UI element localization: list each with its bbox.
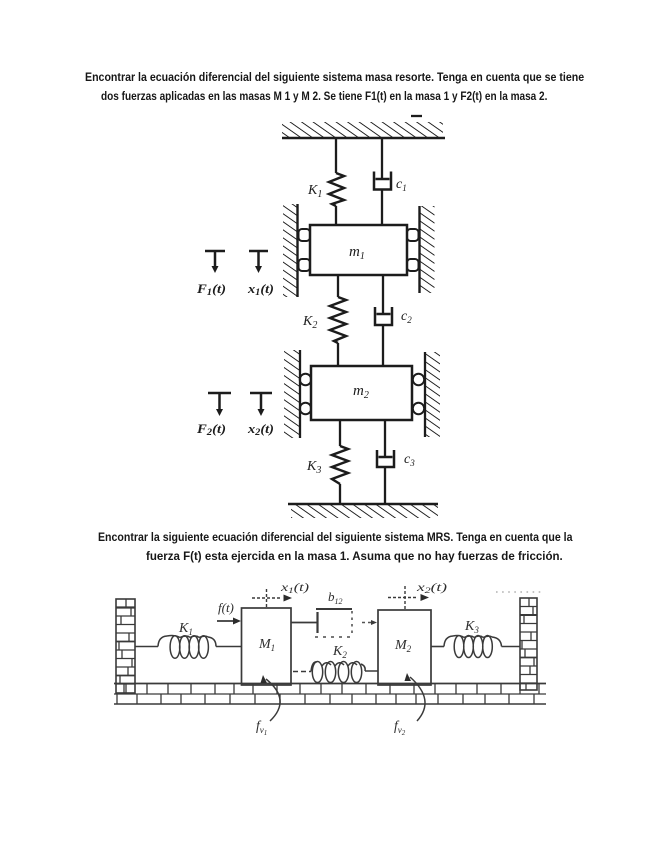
roller m2 lower-left: [300, 403, 311, 414]
ground (brick floor): [114, 684, 546, 705]
wire: damper c2 to mass m2: [382, 325, 384, 367]
svg-text:c1: c1: [396, 177, 407, 193]
svg-text:F2(t): F2(t): [196, 422, 226, 437]
wire: spring K3 to wall: [431, 646, 444, 648]
damper c3: [377, 450, 415, 468]
damper b12: [291, 589, 377, 637]
wall right lower (hatched): [425, 352, 440, 437]
wire: spring K3 to floor: [339, 484, 341, 504]
roller m1 upper-left: [299, 229, 311, 241]
spring K3: [306, 446, 348, 484]
wire: spring K1 to mass M1: [216, 646, 242, 648]
wire: ceiling to damper c1: [381, 138, 383, 179]
wall left lower (hatched): [284, 350, 300, 438]
floor (fixed support, hatched): [288, 504, 438, 518]
svg-text:K1: K1: [178, 621, 193, 637]
wire: ceiling to spring K1: [335, 138, 337, 173]
displacement x2(t) indicator: [388, 582, 447, 611]
friction label fv2 with arrow: [394, 673, 425, 737]
ceiling (fixed support, hatched): [282, 122, 445, 138]
svg-text:M2: M2: [394, 638, 412, 654]
wire: mass m2 to spring K3: [339, 420, 341, 446]
wire: spring K1 to mass m1: [335, 206, 337, 226]
roller m2 upper-right: [413, 374, 424, 385]
svg-text:M1: M1: [258, 637, 275, 653]
arrow x2(t): [247, 393, 274, 437]
paragraph 2 line 1: [98, 528, 573, 547]
arrow F2(t): [196, 393, 231, 437]
svg-text:K2: K2: [302, 314, 317, 331]
damper c2: [375, 307, 412, 325]
svg-text:x1(t): x1(t): [247, 282, 274, 297]
svg-text:K3: K3: [306, 459, 321, 476]
svg-text:K2: K2: [332, 644, 347, 660]
svg-text:b12: b12: [328, 589, 343, 606]
friction label fv1 with arrow: [256, 675, 280, 737]
roller m1 upper-right: [407, 229, 419, 241]
arrow x1(t): [247, 251, 274, 297]
svg-text:fv2: fv2: [394, 718, 406, 737]
wire: damper c3 to floor: [384, 467, 386, 504]
svg-text:K3: K3: [464, 619, 479, 635]
arrow F1(t): [196, 251, 226, 297]
svg-text:c3: c3: [404, 452, 415, 468]
spring K2: [302, 297, 346, 343]
stray dotted scan mark: [496, 591, 542, 593]
mass M1: [242, 608, 292, 685]
arrow f(t) applied force: [217, 600, 241, 625]
spring K2: [311, 644, 378, 683]
paragraph 1 line 1: [85, 68, 584, 87]
svg-text:F1(t): F1(t): [196, 282, 226, 297]
roller m2 upper-left: [300, 374, 311, 385]
wall left upper (hatched): [283, 204, 298, 297]
spring K1: [307, 173, 344, 206]
mass m1: [310, 225, 407, 275]
stray scan mark: [411, 115, 422, 117]
spring K1: [158, 621, 216, 658]
wire: mass m1 to damper c2: [382, 275, 384, 314]
svg-text:x2(t): x2(t): [415, 582, 447, 595]
wire: mass M1 to spring K2: [293, 671, 311, 673]
paragraph 1 line 2: [101, 87, 547, 106]
mass m2: [311, 366, 412, 420]
wall right upper (hatched): [420, 206, 435, 293]
mass M2: [378, 610, 431, 685]
spring K3: [444, 619, 502, 658]
svg-text:fv1: fv1: [256, 718, 267, 737]
svg-text:K1: K1: [307, 183, 322, 200]
roller m2 lower-right: [413, 403, 424, 414]
wall column left (bricks): [116, 599, 135, 693]
svg-text:x1(t): x1(t): [280, 582, 310, 595]
svg-text:f(t): f(t): [218, 600, 234, 615]
roller m1 lower-left: [299, 259, 311, 271]
svg-text:x2(t): x2(t): [247, 422, 274, 437]
wall column right (bricks): [520, 598, 537, 690]
wire: spring K2 to mass m2: [337, 343, 339, 367]
paragraph 2 line 2: [146, 547, 563, 566]
svg-text:c2: c2: [401, 309, 412, 325]
wire: mass m2 to damper c3: [384, 420, 386, 457]
roller m1 lower-right: [407, 259, 419, 271]
damper c1: [374, 172, 407, 194]
displacement x1(t) indicator: [252, 582, 309, 608]
wire: wall to spring K1: [135, 646, 158, 648]
wire: mass m1 to spring K2: [337, 275, 339, 297]
wire: damper c1 to mass m1: [381, 190, 383, 227]
